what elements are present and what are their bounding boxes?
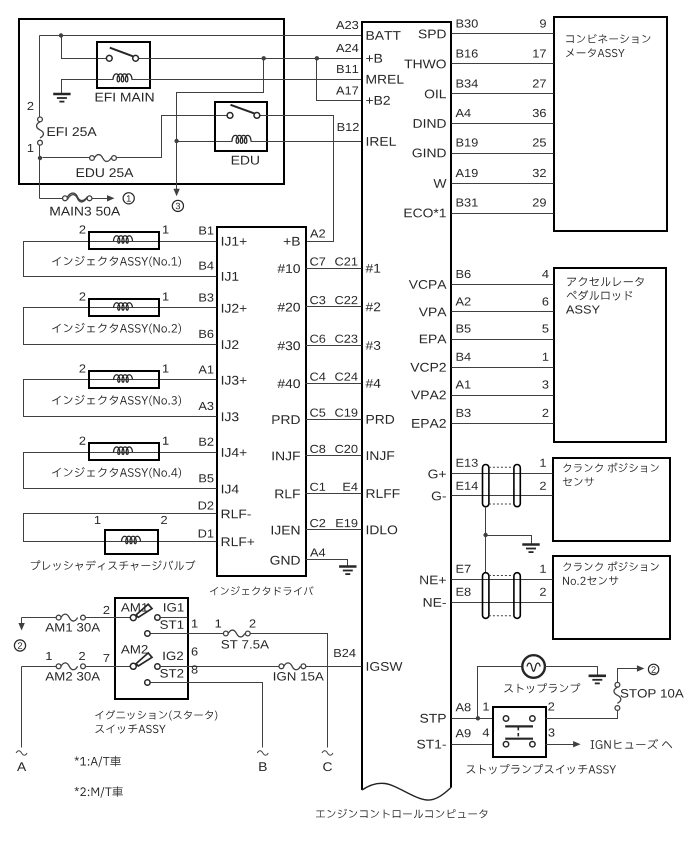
wire EDU switch interior stubs	[216, 115, 268, 117]
label B2	[199, 438, 213, 446]
combination meter ASSY box	[554, 17, 667, 231]
label 3 (accel pin)	[542, 380, 548, 388]
wire NE+ E7	[452, 579, 553, 581]
junction EDU coil tap	[174, 139, 178, 143]
pin label #30	[277, 341, 300, 350]
coil injector 4	[114, 447, 133, 454]
ECU (engine control computer) box with torn bottom	[362, 22, 451, 790]
pin label #40	[277, 379, 300, 388]
wire NE- E8	[452, 602, 553, 604]
label 1 (ST1 pin)	[192, 620, 198, 628]
crank position sensor box	[553, 458, 670, 541]
label C19	[335, 409, 357, 417]
pin label ECO*1	[405, 209, 446, 218]
label 1 (injector 3 pin 1)	[163, 365, 169, 373]
pin label IJ3	[222, 412, 239, 421]
junction +B branch to +B2	[315, 56, 319, 60]
label 2 (ignition pin 2)	[104, 606, 110, 614]
pin label IREL	[367, 137, 396, 146]
relay EDU	[215, 102, 267, 151]
wire G- E14	[452, 495, 553, 497]
wire +B2 to ECU A17	[317, 59, 362, 101]
label E4	[343, 483, 357, 491]
contact IG2	[155, 664, 160, 669]
wire stop lamp to ground	[545, 667, 598, 676]
contact ST1	[145, 631, 150, 636]
label engine control computer	[316, 809, 487, 819]
wire EDU switch out to injector driver +B	[268, 116, 334, 242]
injector ASSY No.3 body	[89, 371, 159, 388]
pin label BATT	[367, 31, 401, 40]
pin label VPA2	[411, 391, 446, 400]
label 3 (stop switch pin 3)	[548, 728, 554, 736]
note *1 A/T	[75, 756, 121, 768]
label 4 (accel pin)	[542, 270, 548, 278]
pin label RLFF	[367, 489, 400, 498]
label 29 (meter pin)	[533, 198, 546, 206]
label C5	[310, 409, 325, 417]
label AM1 30A	[45, 623, 100, 632]
pin label NE-	[424, 598, 446, 607]
label B24	[334, 649, 355, 657]
pin label W	[434, 179, 447, 188]
label A23	[336, 21, 358, 29]
label 1 (valve pin 1)	[95, 516, 101, 524]
pin label IJEN	[272, 526, 300, 535]
label 2 (accel pin)	[543, 409, 549, 417]
label B11	[337, 65, 358, 73]
fuse EFI 25A	[37, 117, 44, 145]
label injector ASSY No.4	[52, 467, 181, 478]
label C2	[310, 519, 325, 527]
wire MAIN3 horizontal	[40, 198, 63, 200]
switch AM2 pivot and blade	[130, 653, 152, 669]
label ignition switch line2	[95, 724, 165, 733]
wire ECU to meter pin 25	[452, 153, 554, 155]
label 1 (crank2 pin)	[540, 565, 546, 573]
ignition (starter) switch ASSY box	[115, 598, 188, 699]
contact IG1	[155, 615, 160, 620]
wire EFI fuse vertical top	[39, 36, 41, 118]
wire PRD driver to ECU	[306, 419, 362, 421]
label 1 (injector 4 pin 1)	[163, 437, 169, 445]
label combination meter line1	[566, 34, 650, 44]
label crank sensor line1	[563, 463, 659, 473]
label injector ASSY No.3	[52, 395, 181, 406]
wire AM1 feed	[22, 617, 131, 619]
label C21	[335, 257, 357, 265]
pin label IJ2	[222, 340, 239, 349]
wire injector 2 loop	[24, 308, 217, 345]
label B6	[199, 330, 213, 338]
label accel line3 ASSY	[566, 305, 600, 313]
wire #40 driver to ECU	[306, 383, 362, 385]
label 4 (stop switch pin 4)	[483, 729, 489, 737]
label B4	[199, 262, 213, 270]
label STOP 10A	[621, 689, 684, 698]
label 6 (ignition pin 6)	[192, 647, 198, 655]
label B5	[199, 474, 213, 482]
shield capsules crank sensor 1	[483, 465, 489, 507]
label accel line2	[567, 290, 633, 300]
pin label IJ2+	[222, 304, 247, 313]
wire pin2 to STOP fuse	[546, 710, 618, 719]
arrowhead to circled 2 right	[637, 665, 645, 671]
label AM2 30A	[45, 672, 100, 681]
label crank2 line1	[563, 562, 659, 572]
junction shield drain	[483, 533, 487, 537]
pin label #4	[366, 379, 381, 388]
wire ECU to accel pin 1	[452, 367, 554, 369]
label C24	[335, 373, 357, 381]
arrowhead to circled 2	[18, 623, 24, 631]
pin label DIND	[414, 119, 446, 128]
pin label G+	[428, 470, 446, 479]
label EFI MAIN	[96, 93, 154, 102]
junction BATT/EFI-relay feed	[59, 33, 63, 37]
label D1	[199, 530, 214, 538]
break symbol C	[322, 751, 333, 755]
coil EFI MAIN	[113, 74, 132, 82]
label 2 (AM2 fuse right)	[79, 652, 85, 660]
connector symbol circled 3	[172, 200, 183, 211]
ground stop lamp	[589, 676, 606, 684]
pin label +B	[284, 237, 300, 246]
wire #10 driver to ECU	[306, 268, 362, 270]
break symbol A	[16, 751, 27, 755]
label 2 (ST fuse right)	[250, 619, 256, 627]
wire ST1- to stop lamp switch	[452, 744, 493, 746]
pin label OIL	[425, 90, 446, 99]
wire EFI coil interior stubs	[98, 79, 150, 81]
label 2 (valve pin 2)	[161, 516, 167, 524]
label 1 (crank1 pin)	[540, 459, 546, 467]
wire STOP fuse to circled 2	[618, 669, 638, 683]
label A8	[456, 703, 471, 711]
label B30	[457, 19, 478, 27]
wire ECU to accel pin 2	[452, 423, 554, 425]
ground injector driver GND	[339, 567, 356, 575]
injector ASSY No.2 body	[89, 299, 159, 316]
label injector ASSY No.2	[52, 323, 181, 334]
label 2 (EFI fuse top pin)	[28, 102, 34, 110]
label IG2	[163, 652, 183, 661]
label B1	[199, 227, 213, 235]
break symbol B	[257, 751, 268, 755]
label EFI 25A	[48, 127, 97, 136]
pin label NE+	[420, 576, 446, 585]
wire EDU coil interior stubs	[216, 141, 268, 143]
relay EFI MAIN	[97, 42, 150, 88]
injector ASSY No.4 body	[89, 443, 159, 460]
junction EDU fuse / MAIN3	[38, 156, 42, 160]
wire ECU to meter pin 29	[452, 213, 554, 215]
ECU torn bottom edge	[362, 783, 451, 800]
pin label IJ4	[222, 485, 239, 494]
label A2	[456, 297, 471, 305]
pin label STP	[420, 714, 446, 723]
label AM1	[121, 603, 148, 611]
label 1 (accel pin)	[543, 353, 549, 361]
label B16	[457, 49, 478, 57]
label A1	[198, 366, 213, 374]
wire AM2 feed	[22, 666, 131, 668]
connector symbol circled 1	[123, 193, 134, 204]
label 9 (meter pin)	[540, 19, 546, 27]
arrowhead to IGN fuse	[573, 741, 581, 747]
wire shield to ground	[486, 536, 532, 544]
crank position No.2 sensor box	[553, 556, 670, 639]
label injector ASSY No.1	[52, 256, 181, 267]
wire IREL: EDU coil to ECU B12	[268, 141, 362, 143]
label E13	[457, 459, 478, 467]
wire MAIN3 vertical through frame	[39, 158, 41, 199]
label 2 (stop switch pin 2)	[548, 702, 554, 710]
ground EFI MAIN coil	[53, 94, 70, 102]
label B34	[457, 79, 478, 87]
wire INJF driver to ECU	[306, 455, 362, 457]
label 2 (injector 3 pin 2)	[80, 364, 86, 372]
pin label IJ1	[222, 272, 239, 281]
label C6	[310, 335, 325, 343]
arrowhead to circled 3	[173, 189, 179, 197]
label 36 (meter pin)	[533, 109, 546, 117]
label E7	[457, 565, 471, 573]
label 2 (crank2 pin)	[540, 588, 546, 596]
label D2	[199, 501, 214, 509]
injector ASSY No.1 body	[89, 232, 159, 249]
coil pressure discharge valve	[122, 536, 141, 543]
label 2 (injector 2 pin 2)	[80, 292, 86, 300]
label MAIN3 50A	[50, 207, 120, 216]
wire #20 driver to ECU	[306, 306, 362, 308]
fuse AM1 30A	[56, 614, 85, 621]
pin label #3	[366, 341, 381, 350]
wire IG1 stub	[161, 617, 188, 619]
wire GND to ground	[306, 560, 348, 567]
pin label G-	[432, 492, 446, 501]
label 2 (injector 4 pin 2)	[80, 437, 86, 445]
fuse STOP 10A	[614, 682, 621, 710]
label E14	[457, 482, 478, 490]
label A3	[198, 402, 213, 410]
wire AM1 to circled 2	[21, 618, 23, 624]
pin label VPA	[419, 308, 447, 317]
label injector driver	[210, 586, 314, 595]
label B5	[457, 325, 471, 333]
label 5 (accel pin)	[542, 325, 548, 333]
label 1 (ST fuse left)	[216, 620, 222, 628]
pressure discharge valve body	[105, 530, 158, 554]
label ST2	[160, 669, 183, 678]
pin label EPA	[420, 335, 447, 344]
label C1	[310, 483, 325, 491]
coil injector 3	[114, 375, 133, 382]
wire ECU to meter pin 17	[452, 63, 554, 65]
accelerator pedal rod ASSY box	[554, 268, 666, 442]
label C4	[310, 373, 325, 381]
label crank sensor line2	[563, 477, 594, 486]
label E19	[336, 519, 357, 527]
note *2 M/T	[75, 786, 123, 798]
label 1 (injector 2 pin 1)	[163, 293, 169, 301]
wire IG2 to IGN fuse	[161, 666, 279, 668]
injector driver box	[217, 227, 306, 576]
connector symbol circled 2 (right)	[648, 664, 658, 674]
label A	[17, 762, 26, 771]
wire pressure discharge valve loop	[24, 514, 217, 542]
shield capsules crank sensor 2	[483, 573, 489, 619]
fuse ST 7.5A	[223, 630, 250, 637]
label A19	[456, 169, 478, 177]
wire IJEN driver to ECU	[306, 529, 362, 531]
wire EFI relay switch feed	[62, 36, 97, 59]
label A4	[456, 109, 471, 117]
label 7 (ignition pin 7)	[104, 654, 110, 662]
pin label VCPA	[409, 280, 447, 289]
wire IGSW to ECU B24	[306, 666, 362, 668]
wire #30 driver to ECU	[306, 345, 362, 347]
fuse EDU 25A	[90, 155, 117, 162]
pin label GND	[270, 556, 299, 565]
wire branch to stop lamp	[478, 667, 523, 719]
pin label #1	[366, 264, 381, 273]
pin label +B2	[366, 96, 390, 105]
label pressure discharge valve	[31, 560, 196, 570]
pin label +B	[366, 54, 382, 63]
wire ECU to meter pin 36	[452, 123, 554, 125]
label B31	[457, 198, 478, 206]
pin label PRD	[367, 415, 395, 424]
pin label IGSW	[367, 662, 403, 671]
wire ECU to accel pin 3	[452, 395, 554, 397]
label EDU 25A	[77, 168, 134, 177]
wire STP to stop lamp switch	[452, 718, 493, 720]
wire EDU fuse feed	[43, 157, 90, 159]
label 2 (crank1 pin)	[540, 482, 546, 490]
wire injector 1 loop	[24, 242, 217, 277]
pin label IDLO	[367, 525, 397, 534]
switch AM1 pivot and blade	[130, 604, 152, 620]
wire +B net: EFI switch out to ECU A24	[150, 58, 362, 60]
switch contacts EFI MAIN	[106, 48, 138, 61]
label C7	[310, 257, 325, 265]
pin label MREL	[367, 75, 404, 84]
label stop lamp	[504, 683, 580, 693]
fuse AM2 30A	[56, 663, 85, 670]
pin label #20	[277, 303, 300, 312]
label B12	[338, 123, 359, 131]
pin label INJF	[273, 452, 300, 461]
pin label #2	[366, 302, 381, 311]
wire EFI coil to ground	[62, 80, 97, 94]
pin label IJ3+	[222, 376, 247, 385]
arrowhead to circled 1	[107, 195, 115, 201]
pin label THWO	[404, 60, 445, 69]
wire EDU coil left lead	[177, 141, 215, 143]
wire injector 3 loop	[24, 380, 217, 417]
label 25 (meter pin)	[533, 138, 546, 146]
wire pin3 to IGN fuse note	[546, 744, 574, 746]
wire MREL: EFI coil to ECU B11	[150, 79, 362, 81]
label B19	[457, 138, 478, 146]
label crank2 line2	[563, 576, 618, 585]
ground shield	[522, 545, 539, 553]
wire ST2 to B	[151, 683, 263, 748]
wire ST1 to fuse	[151, 633, 224, 635]
label 2 (injector 1 pin 2)	[80, 225, 86, 233]
wire injector 4 loop	[24, 453, 217, 489]
label 8 (ignition pin 8)	[192, 665, 198, 673]
label A9	[456, 729, 471, 737]
label EDU	[232, 156, 259, 165]
connector symbol circled 2 (left)	[14, 640, 25, 651]
label accel line1	[567, 277, 644, 286]
label A4 (driver GND)	[310, 549, 325, 557]
label ST 7.5A	[221, 640, 269, 649]
pin label ST1-	[417, 740, 446, 749]
switch contacts EDU	[227, 105, 260, 119]
label ignition switch line1	[95, 710, 217, 720]
label A17	[336, 87, 358, 95]
label 17 (meter pin)	[533, 50, 546, 58]
pin label IJ4+	[222, 448, 247, 457]
coil EDU	[232, 135, 251, 143]
label 1 (stop switch pin 1)	[483, 703, 489, 711]
wire branch to circled 3	[177, 59, 264, 190]
pin label PRD	[272, 415, 299, 424]
label IG1	[164, 603, 184, 612]
wire ECU to meter pin 32	[452, 183, 554, 185]
wire ECU to accel pin 6	[452, 311, 554, 313]
label 6 (accel pin)	[543, 297, 549, 305]
wire G+ E13	[452, 473, 553, 475]
label C20	[335, 445, 357, 453]
label C23	[335, 335, 357, 343]
contact ST2	[145, 680, 150, 685]
wire MAIN3 to arrow	[92, 198, 108, 200]
coil injector 1	[114, 236, 133, 243]
label C22	[335, 296, 357, 304]
label B3	[457, 409, 471, 417]
pin label RLF	[275, 490, 300, 499]
wire ECU to meter pin 9	[452, 33, 554, 35]
wire shield drain	[485, 507, 487, 573]
label IGN 15A	[274, 672, 324, 681]
label B3	[199, 293, 213, 301]
label B6	[457, 270, 471, 278]
label B	[259, 762, 266, 771]
stop lamp switch ASSY box	[493, 707, 546, 757]
label 1 (injector 1 pin 1)	[163, 226, 169, 234]
junction STP lamp branch	[476, 716, 480, 720]
wire EDU fuse to EDU relay switch	[117, 116, 215, 158]
wire ECU to accel pin 5	[452, 339, 554, 341]
label ST1	[160, 620, 183, 629]
label 32 (meter pin)	[533, 169, 546, 177]
pin label VCP2	[410, 363, 446, 372]
relay/fuse block frame	[19, 19, 284, 184]
pin label RLF+	[222, 537, 255, 546]
fusible link MAIN3 50A	[63, 193, 92, 202]
wire RLF driver to ECU	[306, 493, 362, 495]
wire ECU to meter pin 27	[452, 93, 554, 95]
label C	[323, 762, 332, 771]
wire ST fuse to C	[251, 634, 328, 748]
pin label #10	[277, 264, 300, 273]
label B4	[457, 353, 471, 361]
label 1 (AM2 fuse left)	[46, 652, 52, 660]
